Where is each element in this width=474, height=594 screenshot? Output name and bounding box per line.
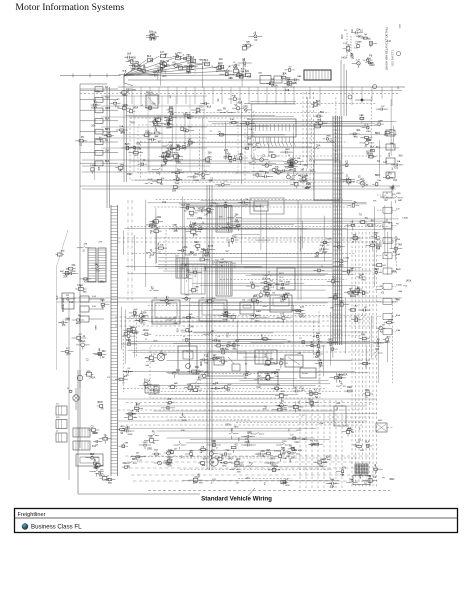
module MR29 bbox=[264, 449, 273, 458]
lamp LP46 bbox=[219, 358, 227, 363]
svg-text:14GA: 14GA bbox=[261, 334, 264, 340]
svg-text:BLK: BLK bbox=[281, 448, 286, 450]
svg-text:30A: 30A bbox=[136, 143, 140, 146]
svg-text:81A: 81A bbox=[207, 106, 212, 109]
svg-text:20A: 20A bbox=[136, 410, 140, 413]
motor M6 bbox=[210, 458, 218, 466]
relay KK1 bbox=[327, 278, 340, 286]
relay KGb10 bbox=[215, 181, 230, 187]
switch SG11 bbox=[145, 179, 153, 183]
svg-text:RED: RED bbox=[67, 354, 72, 356]
wire bus bbox=[158, 253, 332, 255]
wire bus bbox=[134, 405, 367, 407]
node labels bbox=[60, 241, 111, 378]
switch SR11 bbox=[189, 476, 202, 485]
svg-text:BAT: BAT bbox=[174, 382, 179, 385]
wire left border mid bbox=[56, 265, 58, 370]
svg-text:14GA: 14GA bbox=[90, 164, 96, 167]
wire vertical x80 bbox=[79, 84, 81, 448]
lamp LJc4 bbox=[263, 272, 271, 281]
svg-text:GRD: GRD bbox=[353, 445, 358, 447]
svg-text:14GA: 14GA bbox=[208, 245, 214, 248]
svg-text:81A: 81A bbox=[399, 155, 403, 158]
module MPb13 bbox=[315, 359, 324, 367]
switch SOb6 bbox=[116, 426, 129, 435]
relay KHb5 bbox=[313, 145, 320, 149]
svg-text:IGN: IGN bbox=[221, 259, 225, 261]
svg-text:30A: 30A bbox=[367, 58, 372, 61]
svg-text:IGN: IGN bbox=[84, 281, 88, 284]
module MG5 bbox=[162, 142, 173, 149]
connector JL8 bbox=[80, 161, 118, 166]
svg-text:81A: 81A bbox=[235, 340, 239, 343]
svg-text:IGN: IGN bbox=[162, 350, 164, 354]
lamp LGb2 bbox=[243, 144, 251, 149]
svg-text:81A: 81A bbox=[263, 408, 267, 411]
wire group bbox=[123, 196, 396, 287]
module M4 bbox=[254, 201, 268, 211]
svg-text:RED: RED bbox=[256, 311, 261, 313]
svg-text:20A: 20A bbox=[235, 213, 239, 216]
relay KJc8 bbox=[262, 284, 272, 290]
terminal TA7 bbox=[184, 62, 195, 70]
svg-text:GRD: GRD bbox=[186, 71, 192, 74]
svg-text:BAT: BAT bbox=[297, 75, 302, 78]
connector JG18 bbox=[184, 113, 194, 121]
wire left corner top bbox=[80, 83, 107, 85]
diode DB7 bbox=[282, 83, 295, 92]
connector JL5 bbox=[80, 129, 118, 134]
wire caption leader bbox=[247, 488, 255, 497]
connector JP9 bbox=[144, 379, 152, 389]
splice SPR20 bbox=[165, 398, 174, 403]
wire bbox=[376, 232, 378, 488]
svg-text:20A: 20A bbox=[236, 458, 241, 461]
node labels bbox=[283, 428, 303, 463]
switch SP3 bbox=[168, 382, 178, 389]
fuse FP30 bbox=[182, 294, 191, 300]
svg-text:GRD: GRD bbox=[256, 315, 261, 317]
svg-text:IGN: IGN bbox=[298, 353, 302, 355]
fuse FR4 bbox=[375, 172, 395, 178]
splice SPP15 bbox=[122, 339, 137, 346]
wire bus bbox=[57, 297, 402, 299]
splice SPL18 bbox=[375, 268, 382, 274]
switch SL9 bbox=[359, 218, 368, 224]
diode DR30 bbox=[134, 403, 143, 413]
svg-text:BAT: BAT bbox=[197, 246, 200, 251]
svg-text:30A: 30A bbox=[201, 247, 205, 250]
svg-text:14GA: 14GA bbox=[264, 295, 270, 298]
svg-text:81A: 81A bbox=[160, 243, 164, 246]
wire vertical x69 bbox=[68, 300, 70, 480]
connector JF1 bbox=[62, 296, 104, 322]
svg-text:5A: 5A bbox=[351, 431, 354, 434]
fuse FGb8 bbox=[243, 106, 253, 112]
diode DA14 bbox=[183, 55, 195, 63]
diode DP16 bbox=[203, 331, 215, 334]
terminal ring C bbox=[348, 95, 352, 99]
relay KJ25 bbox=[179, 264, 190, 273]
module MJ21 bbox=[149, 286, 158, 291]
svg-text:BLK: BLK bbox=[90, 454, 95, 456]
diode DR9 bbox=[164, 449, 172, 455]
lamp LR10 bbox=[229, 429, 239, 440]
splice SPI18 bbox=[376, 106, 388, 111]
switch SP37 bbox=[212, 336, 221, 343]
svg-text:RED: RED bbox=[367, 149, 369, 154]
svg-text:TO: TO bbox=[142, 317, 145, 319]
module MJ16 bbox=[169, 224, 183, 234]
svg-text:BRN: BRN bbox=[248, 145, 253, 147]
relay KP35 bbox=[180, 325, 193, 331]
svg-text:30A: 30A bbox=[196, 373, 200, 376]
fuse FA2 bbox=[131, 64, 141, 71]
module MGb5 bbox=[223, 152, 232, 157]
wire bbox=[302, 92, 304, 188]
module MR17 bbox=[199, 446, 208, 454]
svg-text:14GA: 14GA bbox=[167, 456, 173, 459]
wire group bbox=[123, 303, 387, 394]
svg-text:BLK: BLK bbox=[199, 473, 201, 478]
svg-text:GRN: GRN bbox=[289, 170, 294, 172]
fuse FH18 bbox=[262, 162, 272, 168]
relay KP34 bbox=[160, 296, 174, 306]
diode DR19 bbox=[167, 448, 178, 455]
relay K7 bbox=[208, 352, 246, 376]
terminal TM7 bbox=[77, 244, 91, 253]
module MH5 bbox=[286, 174, 295, 182]
lamp LPb7 bbox=[272, 385, 283, 393]
connector JG19 bbox=[162, 148, 175, 157]
svg-text:BRN: BRN bbox=[95, 325, 97, 330]
svg-text:RED: RED bbox=[302, 439, 307, 441]
fuse FT1 bbox=[147, 56, 153, 62]
breaker CB9 bbox=[334, 403, 346, 426]
switch SJ24 bbox=[184, 275, 192, 282]
svg-text:TAN: TAN bbox=[358, 41, 363, 44]
svg-text:TO: TO bbox=[213, 384, 216, 386]
wire bus bbox=[115, 320, 377, 322]
svg-text:RED: RED bbox=[234, 427, 239, 429]
diode DL7 bbox=[376, 244, 381, 249]
svg-text:RED: RED bbox=[366, 131, 371, 133]
svg-text:30A: 30A bbox=[154, 449, 158, 452]
module MI3 bbox=[358, 179, 366, 188]
breaker CBQ12 bbox=[359, 307, 370, 312]
lamp LP5 bbox=[189, 379, 202, 388]
fuse FI17 bbox=[349, 129, 361, 139]
splice SPHb1 bbox=[311, 101, 320, 109]
relay KA18 bbox=[119, 70, 133, 76]
connector JR26 bbox=[180, 413, 187, 422]
terminal TP4 bbox=[131, 328, 139, 335]
lamp LF10 bbox=[116, 125, 128, 135]
diode DL2 bbox=[347, 201, 359, 207]
fuse FP6 bbox=[200, 355, 209, 364]
svg-text:30A: 30A bbox=[195, 366, 200, 369]
module MP29 bbox=[149, 386, 160, 395]
switch SG6 bbox=[166, 107, 174, 115]
svg-text:478: 478 bbox=[224, 149, 229, 152]
terminal TC7 bbox=[356, 41, 362, 48]
svg-text:14GA: 14GA bbox=[264, 364, 270, 367]
wire group bbox=[125, 200, 399, 290]
svg-text:20A: 20A bbox=[63, 275, 68, 278]
svg-text:81A: 81A bbox=[177, 328, 180, 333]
svg-text:TAN: TAN bbox=[167, 302, 171, 305]
terminal TQ11 bbox=[384, 318, 395, 325]
switch SP45 bbox=[124, 330, 132, 336]
fuse FPb17 bbox=[254, 375, 263, 382]
svg-text:GRN: GRN bbox=[225, 425, 230, 427]
svg-text:GRN: GRN bbox=[182, 420, 187, 422]
splice SPHb3 bbox=[317, 118, 328, 128]
connector JL3 bbox=[80, 108, 118, 113]
svg-text:TO: TO bbox=[282, 454, 285, 456]
svg-text:20A: 20A bbox=[396, 329, 400, 332]
svg-text:IGN: IGN bbox=[247, 77, 251, 79]
fuse FC5 bbox=[368, 39, 377, 47]
connector JA1 bbox=[139, 66, 149, 74]
splice SPC1 bbox=[361, 33, 370, 39]
lamp LP10 bbox=[145, 358, 155, 367]
svg-text:20A: 20A bbox=[142, 311, 147, 314]
svg-text:BRN: BRN bbox=[339, 264, 344, 266]
relay KJ13 bbox=[146, 250, 156, 257]
table row divider bbox=[15, 517, 458, 519]
svg-text:IGN: IGN bbox=[199, 483, 203, 485]
node labels bbox=[199, 473, 288, 485]
svg-text:15A: 15A bbox=[193, 481, 198, 484]
svg-text:GRD: GRD bbox=[360, 474, 362, 479]
wire bbox=[335, 400, 337, 488]
switch SR24 bbox=[220, 459, 233, 468]
module MG26 bbox=[161, 118, 173, 129]
lamp LJ26 bbox=[186, 226, 201, 237]
svg-text:BLK: BLK bbox=[105, 161, 110, 163]
diode DJc10 bbox=[276, 281, 291, 290]
connector JI8 bbox=[383, 173, 393, 179]
harness bundle B2 bbox=[207, 185, 212, 470]
connector JL1 bbox=[80, 87, 118, 92]
wire left border lower bbox=[77, 370, 79, 494]
connector JI12 bbox=[391, 160, 403, 170]
svg-text:Business Class FL: Business Class FL bbox=[31, 523, 82, 530]
svg-text:20A: 20A bbox=[297, 157, 301, 160]
fuse FM3 bbox=[75, 284, 87, 293]
svg-text:CB4: CB4 bbox=[166, 462, 171, 465]
wire bbox=[343, 64, 345, 116]
splice SPB6 bbox=[284, 79, 294, 84]
fuse FPb11 bbox=[330, 373, 344, 383]
note N1 bbox=[385, 27, 395, 70]
svg-text:14GA: 14GA bbox=[89, 376, 95, 379]
module MPb9 bbox=[336, 383, 346, 389]
svg-text:20A: 20A bbox=[282, 73, 286, 76]
svg-text:TO: TO bbox=[359, 215, 362, 217]
connector JJc3 bbox=[254, 290, 268, 297]
node labels bbox=[91, 89, 136, 175]
fuse FRb6 bbox=[355, 442, 364, 452]
terminal TBR6 bbox=[198, 459, 207, 467]
node labels bbox=[360, 474, 395, 485]
diode DJ8 bbox=[151, 227, 162, 233]
wire vertical x94 bbox=[94, 90, 96, 180]
wire bbox=[323, 400, 325, 488]
fuse FR2 bbox=[376, 144, 395, 150]
diode DAb6 bbox=[238, 58, 252, 68]
terminal TG14 bbox=[148, 135, 160, 141]
module M5 bbox=[314, 160, 340, 200]
svg-text:TAN: TAN bbox=[392, 187, 395, 192]
svg-text:GRD: GRD bbox=[143, 442, 148, 444]
connector J21 bbox=[215, 204, 232, 233]
gauge G2 bbox=[199, 298, 227, 322]
module MPb22 bbox=[276, 313, 291, 324]
switch SP21 bbox=[124, 326, 138, 335]
node labels bbox=[341, 24, 401, 89]
diode DG32 bbox=[145, 104, 156, 111]
wire bus bbox=[82, 159, 210, 161]
wire fan bbox=[60, 56, 245, 86]
wire vertical x124 bbox=[123, 75, 125, 182]
wire bus bbox=[134, 416, 372, 418]
connector JC2 bbox=[56, 417, 67, 429]
splice SPJc1 bbox=[261, 278, 272, 287]
svg-text:81A: 81A bbox=[91, 106, 95, 109]
svg-text:30A: 30A bbox=[102, 350, 107, 353]
svg-text:CB4: CB4 bbox=[365, 390, 370, 392]
svg-text:20A: 20A bbox=[91, 125, 96, 128]
diode DK3 bbox=[328, 293, 342, 299]
svg-text:GRN: GRN bbox=[211, 298, 216, 300]
svg-text:14GA: 14GA bbox=[193, 179, 199, 182]
breaker CBHb6 bbox=[313, 121, 320, 128]
svg-text:TO: TO bbox=[160, 184, 163, 186]
connector JB2 bbox=[73, 441, 97, 450]
connector JC3 bbox=[363, 56, 374, 65]
wire bbox=[127, 200, 129, 300]
svg-text:81A: 81A bbox=[146, 379, 151, 382]
svg-text:CB4: CB4 bbox=[286, 79, 291, 81]
lamp LO4 bbox=[100, 475, 110, 482]
svg-text:GRD: GRD bbox=[247, 433, 252, 435]
svg-text:20A: 20A bbox=[128, 330, 133, 333]
terminal TN1 bbox=[76, 340, 90, 350]
svg-text:TO: TO bbox=[281, 401, 284, 403]
svg-text:15A: 15A bbox=[289, 165, 293, 168]
terminal TP27 bbox=[222, 384, 233, 392]
svg-text:BLK: BLK bbox=[370, 147, 375, 149]
svg-text:BLK: BLK bbox=[154, 341, 159, 343]
fuse FT2 bbox=[160, 52, 166, 58]
connector JRb2 bbox=[365, 442, 372, 448]
lamp LG10 bbox=[163, 152, 173, 160]
diode DK7 bbox=[320, 239, 332, 248]
splice SPG4 bbox=[159, 152, 168, 161]
svg-text:TAN: TAN bbox=[172, 224, 176, 227]
switch SR2 bbox=[276, 401, 288, 410]
splice SPG20 bbox=[143, 131, 151, 137]
connector JPb19 bbox=[275, 391, 288, 400]
svg-text:81A: 81A bbox=[187, 117, 191, 120]
svg-text:BLK: BLK bbox=[365, 442, 370, 444]
svg-text:RED: RED bbox=[310, 406, 315, 408]
svg-text:FRAME GRD: FRAME GRD bbox=[62, 298, 65, 312]
terminal TF12 bbox=[127, 106, 139, 113]
fuse FF2 bbox=[91, 101, 101, 109]
fuse FP41 bbox=[145, 354, 158, 363]
node labels bbox=[293, 160, 314, 191]
svg-text:BLK: BLK bbox=[330, 479, 335, 481]
splice SPH16 bbox=[299, 174, 308, 183]
svg-text:BRN: BRN bbox=[105, 129, 110, 131]
connector J50 bbox=[255, 350, 277, 364]
wire bus bbox=[115, 325, 377, 327]
fuse FOb3 bbox=[131, 453, 146, 463]
diode DA9 bbox=[179, 64, 187, 69]
svg-text:SEE SHEET 2: SEE SHEET 2 bbox=[392, 49, 395, 66]
diode DA5 bbox=[149, 71, 159, 76]
connector JG30 bbox=[154, 117, 162, 122]
switch SG22 bbox=[169, 152, 183, 161]
diode DJ11 bbox=[150, 223, 158, 227]
svg-text:GRD: GRD bbox=[396, 193, 401, 195]
switch SP12 bbox=[222, 309, 231, 316]
svg-text:20A: 20A bbox=[172, 189, 177, 192]
wire bus bbox=[158, 257, 332, 259]
svg-text:30A: 30A bbox=[201, 464, 205, 467]
splice SPG8 bbox=[153, 120, 162, 128]
svg-text:30A: 30A bbox=[94, 465, 98, 468]
terminal TB4 bbox=[281, 72, 290, 78]
wire left border diagonal bbox=[57, 230, 68, 265]
svg-text:BLK: BLK bbox=[318, 342, 323, 344]
svg-text:TO: TO bbox=[153, 354, 156, 356]
svg-text:5A: 5A bbox=[139, 65, 142, 68]
switch SR28 bbox=[119, 443, 129, 448]
lamp LF14 bbox=[75, 136, 87, 146]
svg-text:20A: 20A bbox=[375, 348, 380, 351]
svg-text:30A: 30A bbox=[253, 295, 258, 298]
breaker CBP20 bbox=[194, 386, 202, 392]
svg-text:TO: TO bbox=[104, 436, 107, 438]
svg-text:15A: 15A bbox=[393, 179, 397, 182]
svg-text:TO: TO bbox=[199, 106, 202, 109]
wire bus bbox=[126, 424, 362, 426]
splice SPA15 bbox=[155, 62, 170, 72]
fuse FO1 bbox=[85, 453, 99, 459]
wire bus bbox=[118, 398, 377, 400]
svg-text:81A: 81A bbox=[201, 177, 205, 180]
splice SPPb12 bbox=[299, 338, 304, 344]
module M7 bbox=[277, 268, 295, 290]
terminal TAb7 bbox=[219, 66, 232, 70]
switch bank S10 bbox=[252, 119, 296, 147]
splice SPG13 bbox=[172, 144, 184, 150]
svg-text:81A: 81A bbox=[220, 64, 223, 69]
svg-text:RED: RED bbox=[347, 387, 352, 389]
svg-text:81A: 81A bbox=[309, 398, 314, 401]
svg-text:14GA: 14GA bbox=[272, 85, 278, 88]
svg-text:BRN: BRN bbox=[193, 235, 198, 237]
breaker CBG35 bbox=[187, 139, 195, 147]
svg-text:BLK: BLK bbox=[147, 56, 152, 58]
breaker CBR4 bbox=[377, 238, 400, 244]
module MOb5 bbox=[88, 425, 100, 435]
svg-text:GRD: GRD bbox=[262, 306, 267, 308]
